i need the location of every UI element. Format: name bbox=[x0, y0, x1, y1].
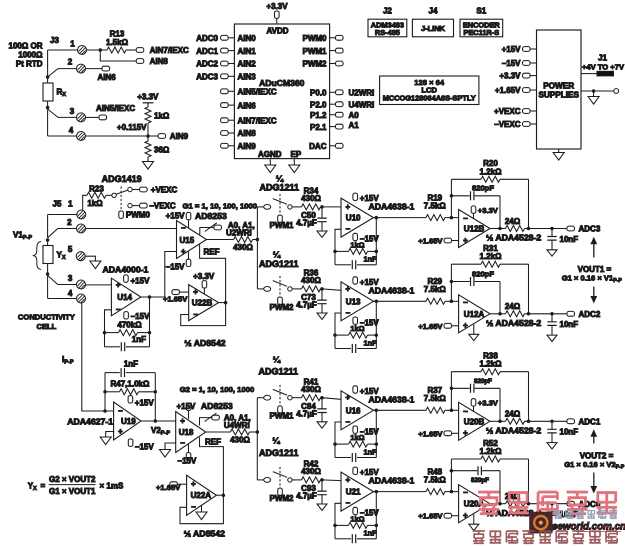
svg-text:10nF: 10nF bbox=[560, 320, 579, 329]
node Rx bottom bbox=[46, 106, 50, 110]
svg-text:2: 2 bbox=[68, 58, 73, 67]
svg-text:¼: ¼ bbox=[273, 250, 281, 260]
node U13 feedback right bbox=[375, 333, 379, 337]
svg-text:+1.65V: +1.65V bbox=[495, 86, 521, 95]
svg-text:+15V: +15V bbox=[360, 278, 380, 287]
svg-text:+1.65V: +1.65V bbox=[163, 294, 188, 303]
svg-text:½ ADA4528-2: ½ ADA4528-2 bbox=[486, 318, 541, 328]
svg-text:MCCOG128064A6S-SPTLY: MCCOG128064A6S-SPTLY bbox=[383, 94, 476, 103]
svg-text:AVDD: AVDD bbox=[266, 27, 288, 36]
plug PWM0 bbox=[119, 211, 124, 218]
svg-text:−: − bbox=[463, 407, 468, 416]
svg-text:U12A: U12A bbox=[464, 310, 485, 319]
svg-text:+3.3V: +3.3V bbox=[478, 206, 499, 215]
wire R13 to AIN7 plug bbox=[126, 49, 136, 51]
svg-text:PWM2: PWM2 bbox=[270, 494, 295, 503]
node U10 feedback right bbox=[375, 250, 379, 254]
plug AIN7/IEXC bbox=[136, 48, 144, 53]
svg-text:1: 1 bbox=[70, 40, 75, 49]
ground U22A bbox=[201, 506, 203, 513]
node U14 feedback left bbox=[103, 331, 107, 335]
svg-text:+4V TO +7V: +4V TO +7V bbox=[582, 63, 625, 72]
svg-text:+15V: +15V bbox=[502, 45, 522, 54]
supply -15V pin U10 bbox=[353, 233, 358, 240]
svg-text:1kΩ: 1kΩ bbox=[154, 111, 170, 120]
svg-text:AIN5/IEXC: AIN5/IEXC bbox=[238, 88, 277, 97]
wire filter node to op-amp U13 bbox=[322, 289, 341, 290]
watermark bottom red characters bbox=[473, 531, 485, 543]
svg-text:+3.3V: +3.3V bbox=[193, 272, 215, 281]
svg-text:24Ω: 24Ω bbox=[505, 302, 521, 311]
svg-text:+: + bbox=[463, 236, 468, 245]
pin P1.2 of ADuCM360 bbox=[330, 114, 336, 116]
node U21 feedback left bbox=[333, 524, 337, 528]
svg-text:7.5kΩ: 7.5kΩ bbox=[424, 394, 447, 403]
svg-text:−: − bbox=[346, 225, 351, 234]
node R47 left bbox=[103, 390, 107, 394]
wire bus U18 output to switches rows 3-4 bbox=[256, 398, 258, 480]
svg-text:AGND: AGND bbox=[258, 150, 282, 159]
pin AIN0 of ADuCM360 bbox=[221, 35, 229, 40]
switch output contact bbox=[288, 205, 292, 209]
node 820pF left U12B bbox=[450, 194, 454, 198]
pin AIN7/IEXC of ADuCM360 bbox=[221, 118, 229, 123]
svg-text:4: 4 bbox=[69, 126, 74, 135]
wire bus U15 output to switches rows 1-2 bbox=[256, 207, 258, 289]
wire U12A output bbox=[490, 313, 506, 315]
control line PWM1 dashed bbox=[279, 385, 281, 406]
ground EP bbox=[289, 165, 300, 173]
wire bus to row2 switch bbox=[257, 288, 263, 290]
svg-text:−: − bbox=[193, 310, 198, 319]
node U15 output bus bbox=[256, 238, 260, 242]
svg-text:4.7µF: 4.7µF bbox=[296, 492, 317, 501]
svg-text:−: − bbox=[463, 488, 468, 497]
svg-text:7.5kΩ: 7.5kΩ bbox=[424, 475, 447, 484]
annotation VOUT1 arrows bbox=[593, 244, 595, 258]
svg-text:U4WRI: U4WRI bbox=[349, 100, 375, 109]
svg-text:U4WRI: U4WRI bbox=[224, 421, 250, 430]
svg-text:ADA4638-1: ADA4638-1 bbox=[369, 202, 415, 212]
switch ADG1419 common contact bbox=[112, 193, 116, 197]
svg-text:5: 5 bbox=[68, 245, 73, 254]
svg-text:U21: U21 bbox=[346, 488, 361, 497]
plug +1.65V to U22B bbox=[172, 290, 180, 295]
svg-text:−: − bbox=[346, 308, 351, 317]
ground C73 bbox=[317, 313, 327, 319]
switch input terminal bbox=[264, 395, 271, 400]
plug -VEXC bbox=[140, 203, 148, 208]
plug AIN5/IEXC bbox=[99, 115, 107, 120]
svg-text:U12B: U12B bbox=[464, 225, 485, 234]
svg-text:820pF: 820pF bbox=[471, 477, 489, 484]
svg-text:10nF: 10nF bbox=[560, 235, 579, 244]
pin DAC of ADuCM360 bbox=[330, 145, 336, 147]
wire U21 feedback right vertical bbox=[375, 492, 377, 539]
svg-text:U18: U18 bbox=[179, 428, 194, 437]
svg-text:U22A: U22A bbox=[191, 491, 212, 500]
svg-text:J3: J3 bbox=[50, 36, 59, 45]
wire R52 left vertical bbox=[450, 459, 452, 492]
svg-text:4.7µF: 4.7µF bbox=[296, 219, 317, 228]
svg-text:AIN8: AIN8 bbox=[150, 57, 169, 66]
plug ADC1 bbox=[567, 419, 575, 424]
wire J5 pin2 to U15 inverting input bbox=[86, 228, 177, 230]
node cell top bbox=[46, 238, 50, 242]
svg-text:+: + bbox=[463, 511, 468, 520]
wire U18 inverting to ground bbox=[165, 443, 176, 450]
control line PWM0 dashed bbox=[120, 187, 122, 211]
node U13 feedback left bbox=[333, 333, 337, 337]
svg-text:1nF: 1nF bbox=[124, 359, 138, 368]
ground U19 input bbox=[100, 437, 111, 445]
node AIN7 junction bbox=[99, 48, 103, 52]
node U19 inverting input bbox=[103, 409, 107, 413]
pin P2.1 of ADuCM360 bbox=[330, 126, 336, 128]
node U12B output bbox=[498, 227, 502, 231]
wire cell rail to pin3 diagonal bbox=[48, 276, 77, 285]
svg-text:470kΩ: 470kΩ bbox=[117, 321, 142, 330]
svg-text:AIN8: AIN8 bbox=[238, 129, 257, 138]
node U21 feedback right bbox=[375, 524, 379, 528]
wire Rx bottom bbox=[47, 101, 49, 108]
pin AIN5/IEXC of ADuCM360 bbox=[221, 89, 229, 94]
svg-text:Pt RTD: Pt RTD bbox=[16, 60, 43, 69]
svg-text:1: 1 bbox=[68, 200, 73, 209]
supply +15V pin U13 bbox=[353, 277, 358, 284]
pin AIN1 of ADuCM360 bbox=[221, 48, 229, 53]
svg-text:A0: A0 bbox=[349, 111, 360, 120]
wire U19 feedback right vertical bbox=[154, 373, 156, 421]
node 24ohm right ADC3 bbox=[527, 227, 531, 231]
wire to ADC3 plug bbox=[525, 228, 567, 230]
svg-text:CELL: CELL bbox=[36, 322, 56, 331]
node 24ohm right ADC1 bbox=[527, 420, 531, 424]
svg-text:+: + bbox=[193, 288, 198, 297]
svg-text:PWM1: PWM1 bbox=[303, 47, 328, 56]
gain pins A0 A1 U2WRI of U15 bbox=[200, 228, 214, 235]
wire U14 output bbox=[141, 296, 165, 298]
ground U18 input bbox=[160, 450, 171, 458]
annotation VOUT2 arrows bbox=[593, 436, 595, 443]
wire left rail down to Rx bbox=[47, 50, 49, 77]
svg-text:P2.1: P2.1 bbox=[310, 123, 327, 132]
svg-text:ADC1: ADC1 bbox=[579, 418, 601, 427]
node U16 output bbox=[375, 409, 379, 413]
svg-text:AIN3: AIN3 bbox=[238, 73, 257, 82]
wire switch to resistor R34 bbox=[292, 206, 301, 208]
svg-text:½ ADA4528-2: ½ ADA4528-2 bbox=[486, 426, 541, 436]
ground 10nF ADC0 bbox=[547, 525, 557, 531]
svg-text:1.5kΩ: 1.5kΩ bbox=[106, 38, 129, 47]
wire 36ohm to ground bbox=[147, 157, 149, 162]
svg-text:+: + bbox=[346, 202, 351, 211]
svg-text:1.2kΩ: 1.2kΩ bbox=[480, 252, 503, 261]
wire R31 right vertical bbox=[528, 264, 530, 314]
svg-text:+: + bbox=[180, 416, 185, 425]
svg-text:−: − bbox=[180, 438, 185, 447]
svg-text:¼: ¼ bbox=[273, 355, 281, 365]
plug ADC0 bbox=[567, 501, 575, 506]
plug PWM1 bbox=[278, 215, 283, 222]
svg-text:S1: S1 bbox=[476, 7, 486, 16]
svg-text:AIN0: AIN0 bbox=[238, 34, 257, 43]
pin P0.0 of ADuCM360 bbox=[330, 91, 336, 93]
svg-text:SUPPLIES: SUPPLIES bbox=[538, 91, 579, 100]
wire R52 right vertical bbox=[528, 459, 530, 504]
svg-text:430Ω: 430Ω bbox=[301, 385, 321, 394]
ground power supplies bbox=[558, 149, 560, 153]
svg-text:AIN9: AIN9 bbox=[170, 132, 189, 141]
svg-text:P0.0: P0.0 bbox=[310, 89, 327, 98]
wire U13 feedback right vertical bbox=[375, 301, 377, 348]
resistor 36 ohm bbox=[147, 136, 149, 141]
svg-text:J2: J2 bbox=[383, 7, 392, 16]
node AIN9 bbox=[146, 134, 150, 138]
wire filter node to op-amp U21 bbox=[322, 479, 341, 482]
wire U16 output bbox=[374, 409, 427, 411]
node U20B output bbox=[498, 420, 502, 424]
svg-text:AIN6: AIN6 bbox=[98, 73, 117, 82]
node cell bottom bbox=[46, 272, 50, 276]
supply -15V pin U16 bbox=[353, 426, 358, 433]
svg-text:ADG1419: ADG1419 bbox=[102, 174, 142, 184]
pin AIN6 of ADuCM360 bbox=[221, 103, 229, 108]
svg-text:P1.2: P1.2 bbox=[310, 111, 327, 120]
svg-text:−: − bbox=[116, 305, 121, 314]
node U18 output bus bbox=[256, 430, 260, 434]
svg-text:+3.3V: +3.3V bbox=[499, 72, 521, 81]
plug AIN6 bbox=[102, 66, 110, 71]
wire U19 output bbox=[141, 420, 176, 422]
svg-text:7.5kΩ: 7.5kΩ bbox=[424, 285, 447, 294]
gain pins A0 A1 U4WRI of U18 bbox=[200, 418, 212, 426]
svg-text:−15V: −15V bbox=[166, 262, 186, 271]
svg-text:P2.0: P2.0 bbox=[310, 100, 327, 109]
wire U16 feedback right vertical bbox=[375, 410, 377, 457]
svg-text:7.5kΩ: 7.5kΩ bbox=[424, 201, 447, 210]
switch output contact bbox=[288, 478, 292, 482]
ground J3 bias bbox=[143, 162, 154, 170]
node U14 feedback right bbox=[148, 331, 152, 335]
svg-text:PWM2: PWM2 bbox=[270, 303, 295, 312]
wire R38 right vertical bbox=[528, 372, 530, 422]
node U12B inverting input bbox=[450, 216, 454, 220]
wire U14 feedback right vertical bbox=[149, 297, 151, 347]
svg-text:+15V: +15V bbox=[135, 398, 155, 407]
svg-text:10nF: 10nF bbox=[560, 428, 579, 437]
svg-text:−VEXC: −VEXC bbox=[149, 202, 176, 211]
control line PWM2 dashed bbox=[279, 467, 281, 488]
svg-text:PWM1: PWM1 bbox=[270, 221, 295, 230]
wire U16 feedback left bbox=[335, 422, 341, 458]
resistor 1k bias bbox=[145, 107, 151, 123]
svg-text:U10: U10 bbox=[346, 214, 361, 223]
svg-text:+1.65V: +1.65V bbox=[418, 512, 443, 521]
resistor 430ohm U15 output bbox=[207, 239, 234, 241]
svg-text:RS-485: RS-485 bbox=[375, 28, 400, 37]
plug +1.65V to U20B bbox=[444, 431, 452, 436]
svg-text:J-LINK: J-LINK bbox=[421, 24, 445, 33]
ground C93 bbox=[317, 504, 327, 510]
svg-text:430Ω: 430Ω bbox=[301, 194, 321, 203]
supply +3.3V pin U12B bbox=[471, 206, 476, 213]
svg-text:AIN7/IEXC: AIN7/IEXC bbox=[150, 46, 189, 55]
switch output contact bbox=[288, 396, 292, 400]
svg-text:U2WRI: U2WRI bbox=[349, 89, 375, 98]
node filter C84 bbox=[320, 396, 324, 400]
svg-text:+15V: +15V bbox=[166, 212, 186, 221]
svg-text:AIN6: AIN6 bbox=[238, 101, 257, 110]
supply +15V pin U16 bbox=[353, 386, 358, 393]
plug +1.65V to U12A bbox=[444, 323, 452, 328]
svg-text:36Ω: 36Ω bbox=[154, 145, 170, 154]
ground AGND bbox=[265, 165, 276, 173]
svg-text:G1 = 1, 10, 100, 1000: G1 = 1, 10, 100, 1000 bbox=[183, 202, 258, 211]
capacitor 10nF ADC2 bbox=[551, 314, 553, 322]
node 24ohm right ADC2 bbox=[527, 312, 531, 316]
svg-text:AD8253: AD8253 bbox=[201, 401, 233, 411]
node U20A output bbox=[498, 502, 502, 506]
svg-text:ADG1211: ADG1211 bbox=[259, 259, 299, 269]
op-amp U20A half ADA4528-2 bbox=[459, 485, 490, 523]
svg-text:430Ω: 430Ω bbox=[301, 276, 321, 285]
supply -15V pin U13 bbox=[353, 317, 358, 324]
wire R31 left vertical bbox=[450, 264, 452, 301]
pin AIN3 of ADuCM360 bbox=[221, 74, 229, 79]
wire to ADC2 plug bbox=[525, 313, 567, 315]
pin AIN8 of ADuCM360 bbox=[221, 131, 229, 136]
svg-text:1nF: 1nF bbox=[364, 255, 378, 264]
svg-text:1.2kΩ: 1.2kΩ bbox=[480, 360, 503, 369]
svg-text:ADC2: ADC2 bbox=[196, 60, 218, 69]
svg-text:ADC2: ADC2 bbox=[579, 310, 601, 319]
node 10nF ADC0 bbox=[550, 502, 554, 506]
plug PWM1 bbox=[278, 406, 283, 413]
node 820pF left U20A bbox=[450, 469, 454, 473]
svg-text:J4: J4 bbox=[429, 7, 438, 16]
svg-text:ADG1211: ADG1211 bbox=[259, 448, 299, 458]
svg-text:+: + bbox=[463, 321, 468, 330]
pin PWM0 of ADuCM360 bbox=[330, 37, 336, 39]
svg-text:430Ω: 430Ω bbox=[301, 467, 321, 476]
svg-text:R47,1.0kΩ: R47,1.0kΩ bbox=[111, 379, 150, 388]
wire 820pF right vertical U12A bbox=[499, 282, 501, 314]
ground C84 bbox=[317, 422, 327, 428]
ground J5 pin5 bbox=[90, 261, 101, 269]
wire J3 pin1 to left rail bbox=[48, 49, 78, 51]
control line PWM1 dashed bbox=[279, 194, 281, 215]
plug ADC3 bbox=[567, 226, 575, 231]
LCD module 128x64 MCCOG128064A6S-SPTLY bbox=[380, 76, 479, 105]
wire switch to resistor R41 bbox=[292, 397, 301, 399]
supply -15V pin U18 bbox=[188, 444, 190, 453]
svg-text:J1: J1 bbox=[598, 54, 607, 63]
plug PWM2 bbox=[278, 297, 283, 304]
svg-text:G2 × VOUT2: G2 × VOUT2 bbox=[49, 475, 96, 484]
resistor 470k U14 feedback bbox=[105, 332, 119, 334]
supply +15V pin U14 bbox=[124, 275, 129, 282]
svg-text:1kΩ: 1kΩ bbox=[87, 199, 103, 208]
svg-text:−15V: −15V bbox=[135, 442, 155, 451]
svg-text:ADuCM360: ADuCM360 bbox=[259, 78, 305, 88]
wire U10 feedback left bbox=[335, 229, 341, 264]
plug +1.65V to U20A bbox=[444, 513, 452, 518]
svg-text:ADA4638-1: ADA4638-1 bbox=[369, 285, 415, 295]
capacitor 1nF U14 feedback bbox=[105, 346, 121, 348]
wire bus to row4 switch bbox=[257, 479, 263, 481]
svg-text:A1: A1 bbox=[349, 121, 360, 130]
svg-text:4.7µF: 4.7µF bbox=[296, 409, 317, 418]
node U22B output bbox=[224, 301, 228, 305]
svg-text:U15: U15 bbox=[180, 236, 195, 245]
wire U19 noninverting to ground bbox=[106, 432, 114, 438]
svg-text:¼: ¼ bbox=[272, 436, 280, 446]
wire U20A output bbox=[490, 503, 506, 505]
svg-text:U19: U19 bbox=[121, 417, 136, 426]
ground 10nF ADC3 bbox=[547, 250, 557, 256]
plug +1.65V to U12B bbox=[444, 238, 452, 243]
wire bus to row1 switch bbox=[257, 206, 263, 208]
node U10 output bbox=[375, 216, 379, 220]
wire J5 pin2 to cell rail diagonal bbox=[48, 229, 77, 238]
wire pin2 to rail diagonal bbox=[48, 69, 77, 77]
capacitor 10nF ADC0 bbox=[551, 504, 553, 512]
wire U22A output to REF bbox=[216, 494, 223, 496]
switch lever bbox=[273, 472, 287, 478]
node filter C50 bbox=[320, 205, 324, 209]
pin AIN2 of ADuCM360 bbox=[221, 61, 229, 66]
svg-text:+: + bbox=[346, 393, 351, 402]
svg-text:ADC3: ADC3 bbox=[196, 73, 218, 82]
plug AIN8 bbox=[136, 59, 144, 64]
svg-text:+1.65V: +1.65V bbox=[156, 483, 181, 492]
wire 1k to node bbox=[147, 123, 149, 136]
wire U14 feedback left bbox=[105, 310, 112, 347]
svg-text:+15V: +15V bbox=[360, 387, 380, 396]
svg-text:820pF: 820pF bbox=[472, 184, 494, 193]
svg-text:PWM0: PWM0 bbox=[303, 34, 328, 43]
pin AIN9 of ADuCM360 bbox=[221, 143, 229, 148]
svg-text:+: + bbox=[116, 280, 121, 289]
wire J5 pin4 down to U19 (Ip-p) bbox=[82, 303, 114, 411]
svg-text:3: 3 bbox=[68, 274, 73, 283]
supply -15V pin U21 bbox=[353, 507, 358, 514]
node U22A output bbox=[222, 493, 226, 497]
capacitor 10nF ADC3 bbox=[551, 229, 553, 237]
svg-text:+3.3V: +3.3V bbox=[137, 92, 159, 101]
brace conductivity cell bbox=[34, 242, 41, 270]
svg-text:REF: REF bbox=[204, 247, 220, 256]
svg-text:J5: J5 bbox=[53, 200, 62, 209]
svg-text:−VEXC: −VEXC bbox=[494, 120, 521, 129]
svg-text:REF: REF bbox=[205, 437, 221, 446]
wire U19 feedback left vertical bbox=[104, 373, 106, 411]
supply +3.3V pin U20B bbox=[471, 399, 476, 406]
svg-text:U16: U16 bbox=[346, 406, 361, 415]
svg-text:2: 2 bbox=[67, 218, 72, 227]
svg-text:=: = bbox=[41, 482, 46, 491]
svg-text:VOUT2 =: VOUT2 = bbox=[580, 451, 614, 460]
svg-text:R23: R23 bbox=[89, 184, 104, 193]
svg-text:U13: U13 bbox=[346, 297, 361, 306]
wire junction to AIN8 plug bbox=[100, 50, 136, 61]
svg-text:U14: U14 bbox=[117, 293, 132, 302]
svg-text:PWM1: PWM1 bbox=[270, 412, 295, 421]
svg-text:+: + bbox=[346, 475, 351, 484]
svg-text:POWER: POWER bbox=[543, 82, 574, 91]
svg-text:4: 4 bbox=[68, 289, 73, 298]
